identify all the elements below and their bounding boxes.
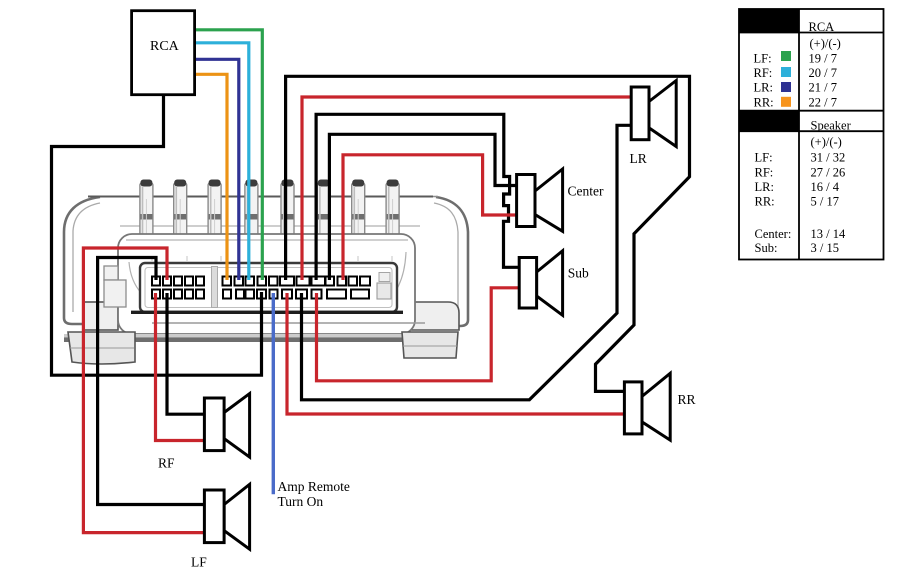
wire: RCA cyan xyxy=(195,43,249,280)
table black header cell RCA xyxy=(739,9,799,33)
svg-text:Turn On: Turn On xyxy=(278,494,324,509)
back edge line xyxy=(88,196,433,198)
table borders xyxy=(739,9,884,260)
wire: RF red xyxy=(156,293,204,441)
svg-text:Sub: Sub xyxy=(568,266,589,281)
mid shadow line xyxy=(152,322,425,324)
wire: LR black return xyxy=(302,125,633,400)
left foot upper xyxy=(83,302,118,330)
svg-text:RR:: RR: xyxy=(754,95,774,109)
connector pin squares top row left group xyxy=(152,277,204,286)
svg-text:20 / 7: 20 / 7 xyxy=(809,66,837,80)
svg-text:LF:: LF: xyxy=(754,51,772,65)
bottom band dark xyxy=(64,337,456,342)
svg-text:LR: LR xyxy=(630,151,647,166)
right foot lower xyxy=(402,332,458,358)
connector pin squares bottom row right group xyxy=(223,290,369,299)
right bracket xyxy=(398,197,468,327)
svg-text:RF:: RF: xyxy=(754,66,773,80)
speaker Center xyxy=(517,169,563,231)
wire: RCA green xyxy=(195,30,263,280)
wire: RCA navy xyxy=(195,59,239,280)
svg-text:31 / 32: 31 / 32 xyxy=(811,150,846,164)
label Amp Remote Turn On xyxy=(278,479,350,509)
speaker LF xyxy=(204,484,249,549)
svg-text:27 / 26: 27 / 26 xyxy=(811,166,846,180)
svg-text:LR:: LR: xyxy=(755,180,774,194)
wire: RCA orange xyxy=(195,74,227,280)
svg-text:(+)/(-): (+)/(-) xyxy=(811,135,842,149)
right foot upper xyxy=(404,302,459,330)
wire: LF black xyxy=(98,258,204,505)
amplifier posts xyxy=(140,180,399,260)
table section 1 rows xyxy=(754,37,841,110)
svg-text:RF:: RF: xyxy=(755,166,774,180)
svg-text:RF: RF xyxy=(158,456,175,471)
svg-text:Amp Remote: Amp Remote xyxy=(278,479,350,494)
wire: RCA ground black xyxy=(52,93,262,375)
left bracket xyxy=(64,197,141,325)
amplifier unit body xyxy=(64,197,468,331)
svg-text:LF:: LF: xyxy=(755,150,773,164)
bottom band light xyxy=(64,334,456,337)
table black header cell Speaker xyxy=(739,111,799,132)
svg-text:LF: LF xyxy=(191,555,207,570)
connector pin squares bottom row left group xyxy=(152,290,204,299)
svg-text:5 / 17: 5 / 17 xyxy=(811,195,839,209)
speaker Sub xyxy=(519,251,562,315)
RCA box xyxy=(132,11,195,95)
wire: RF black xyxy=(167,293,204,414)
svg-text:Speaker: Speaker xyxy=(811,119,852,133)
svg-text:Center:: Center: xyxy=(755,227,792,241)
svg-text:LR:: LR: xyxy=(754,81,773,95)
pinout table xyxy=(739,9,884,260)
svg-text:21 / 7: 21 / 7 xyxy=(809,81,837,95)
table color key squares xyxy=(781,51,791,61)
wire: LF red xyxy=(83,248,203,533)
amplifier main body xyxy=(104,234,415,334)
table section 2 rows xyxy=(755,135,846,255)
wire: Sub black xyxy=(316,114,518,280)
wire: RR black xyxy=(286,76,690,391)
svg-text:Center: Center xyxy=(568,184,604,199)
wire: Center black xyxy=(329,134,515,280)
left foot lower xyxy=(68,332,135,364)
speaker RF xyxy=(204,394,249,458)
svg-text:RCA: RCA xyxy=(809,20,835,34)
svg-text:22 / 7: 22 / 7 xyxy=(809,95,837,109)
svg-text:Sub:: Sub: xyxy=(755,241,778,255)
wire: RR red xyxy=(287,293,624,414)
svg-text:(+)/(-): (+)/(-) xyxy=(810,37,841,51)
svg-text:16 / 4: 16 / 4 xyxy=(811,180,840,194)
svg-text:RCA: RCA xyxy=(150,39,180,54)
dark line under connector xyxy=(131,311,403,314)
connector plate xyxy=(140,263,397,312)
speaker RR xyxy=(624,373,670,440)
speaker LR xyxy=(631,81,676,147)
wire: amp remote turn-on blue xyxy=(272,293,275,494)
svg-text:3 / 15: 3 / 15 xyxy=(811,241,839,255)
svg-text:RR: RR xyxy=(678,392,696,407)
svg-text:19 / 7: 19 / 7 xyxy=(809,51,837,65)
wire: Center red xyxy=(343,155,516,280)
svg-text:13 / 14: 13 / 14 xyxy=(811,227,846,241)
connector pin squares top row right group xyxy=(223,277,371,286)
svg-text:RR:: RR: xyxy=(755,195,775,209)
wire: Sub red xyxy=(317,288,519,381)
wire: LR red xyxy=(302,97,631,280)
